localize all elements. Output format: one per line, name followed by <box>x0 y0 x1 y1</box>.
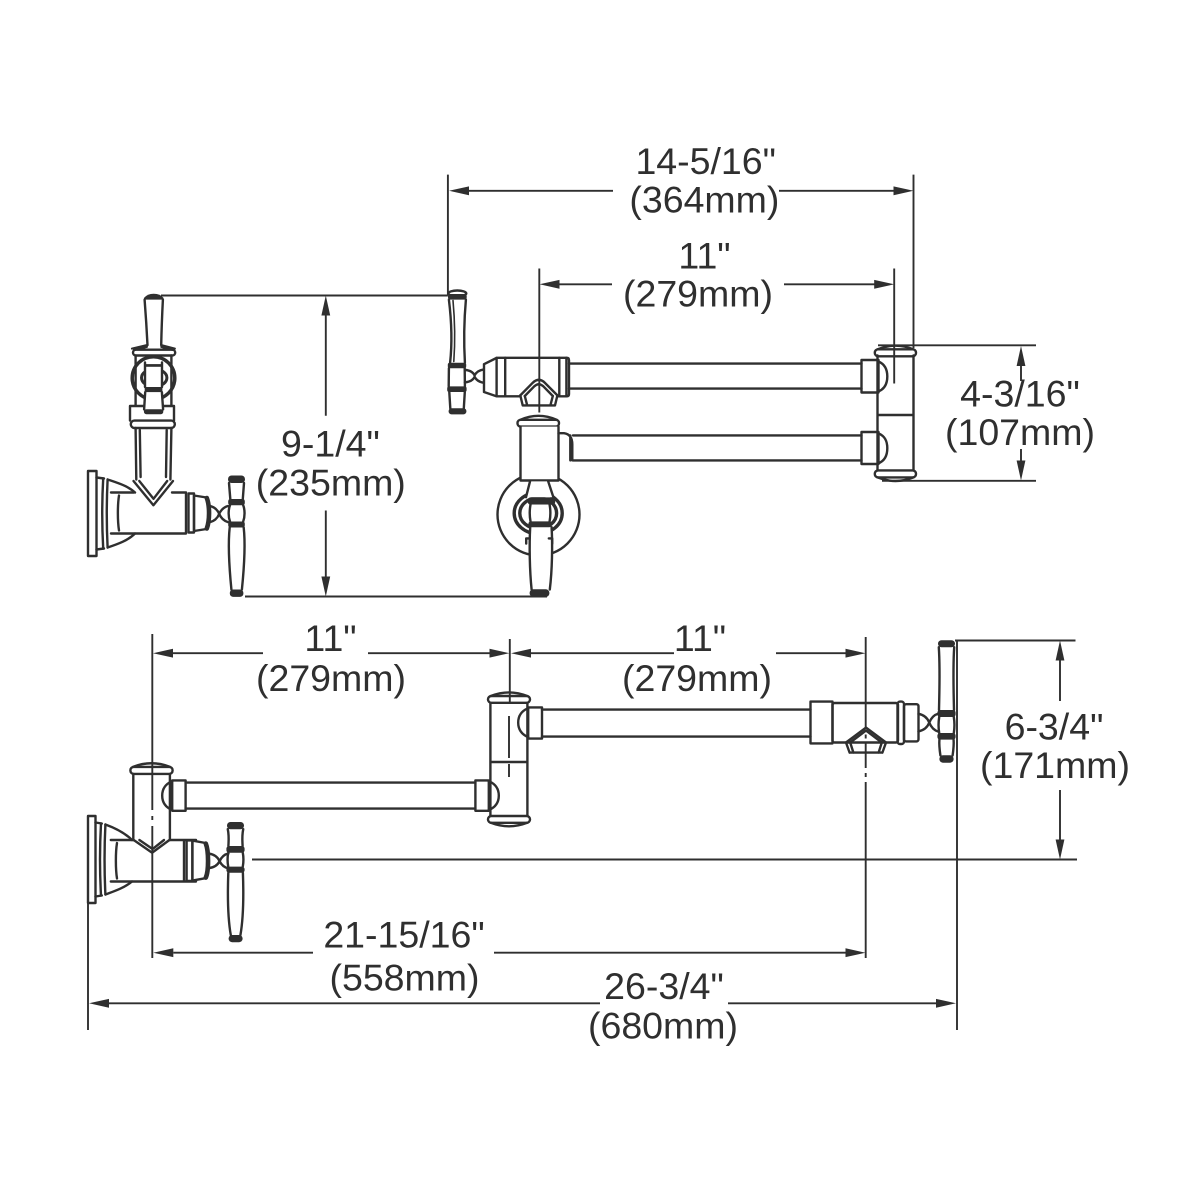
folded view swing joint bottom cap <box>875 470 916 481</box>
dim 4-3/16 extension lines <box>878 345 1036 481</box>
arrow 14-5/16 right <box>894 186 914 195</box>
arrow 14-5/16 left <box>449 186 469 195</box>
svg-text:(680mm): (680mm) <box>588 1005 738 1047</box>
svg-text:6-3/4": 6-3/4" <box>1005 706 1104 748</box>
side view body inner cup arc <box>118 496 119 531</box>
side view bonnet band <box>133 350 175 356</box>
svg-text:14-5/16": 14-5/16" <box>635 140 776 182</box>
side view valve body <box>111 493 186 534</box>
arrow 26-3/4 left <box>89 999 109 1008</box>
plan view handle neck <box>209 853 229 868</box>
side view riser body <box>136 428 172 480</box>
plan view body inner cup arc <box>116 843 117 879</box>
dim 9-1/4 line <box>325 315 327 577</box>
svg-text:21-15/16": 21-15/16" <box>323 914 484 956</box>
plan view first arm fitting at middle joint <box>475 780 498 810</box>
folded view spout column <box>521 427 559 481</box>
folded view lower arm end fitting <box>862 432 888 464</box>
arrow 21-15/16 left <box>153 948 173 957</box>
plan view riser joint cap <box>130 763 172 774</box>
dim 11 bottom-left line <box>173 652 490 654</box>
plan view riser joint body <box>133 774 170 840</box>
dim 11 top extension lines <box>539 269 894 413</box>
dim 26-3/4 left extension <box>87 903 89 1030</box>
side view front handle upper taper <box>229 483 244 499</box>
folded view lower arm elbow at column <box>559 433 573 460</box>
svg-text:4-3/16": 4-3/16" <box>960 373 1080 415</box>
plan view flange trumpet <box>96 823 133 897</box>
folded view handle neck trapezoid <box>526 481 553 497</box>
side view wall flange plate <box>88 471 97 556</box>
side view front handle dark ring 1 <box>228 499 245 505</box>
arrow 9-1/4 up <box>321 296 330 316</box>
side view riser cone junction <box>134 481 174 505</box>
folded view escutcheon circle <box>498 474 580 556</box>
side view bonnet shoulders <box>132 345 175 350</box>
plan view valve rings right <box>184 840 208 881</box>
folded view swing joint body <box>878 356 914 471</box>
plan view middle joint top cap <box>488 692 530 702</box>
arrow 11 top left <box>540 280 560 289</box>
side view neck to handle <box>210 506 229 523</box>
svg-text:11": 11" <box>678 234 730 276</box>
side view front handle: dark cap <box>228 476 245 484</box>
plan centerline middle joint <box>508 639 511 777</box>
svg-text:(558mm): (558mm) <box>329 957 479 999</box>
side view front handle blade <box>229 528 245 590</box>
arrow 11 bottom-left left <box>153 649 173 658</box>
side view wheel inner ring <box>142 369 167 387</box>
plan view riser cone junction <box>134 840 170 852</box>
arrow 4-3/16 down <box>1017 461 1026 481</box>
side view lever dark bottom cap <box>144 409 163 414</box>
svg-text:11": 11" <box>304 617 356 659</box>
svg-text:(235mm): (235mm) <box>256 462 406 504</box>
plan view second arm fitting at middle joint <box>518 707 542 738</box>
svg-text:26-3/4": 26-3/4" <box>604 965 724 1007</box>
side view flange trumpet <box>97 478 136 550</box>
dim 6-3/4 top extension <box>955 640 1076 642</box>
folded view gland ring torus <box>514 493 562 534</box>
svg-text:(279mm): (279mm) <box>622 657 772 699</box>
arrow 11 bottom-right left <box>511 649 531 658</box>
svg-text:(171mm): (171mm) <box>980 744 1130 786</box>
plan view wall flange plate <box>88 816 96 903</box>
folded view upright handle <box>447 291 467 415</box>
side view top lever blade <box>145 300 163 346</box>
svg-text:(364mm): (364mm) <box>629 178 779 220</box>
plan centerline left riser <box>151 634 153 958</box>
dim 26-3/4 right extension <box>956 641 958 1031</box>
folded view handle hub <box>530 505 551 522</box>
arrow 4-3/16 up <box>1017 346 1026 366</box>
folded view spout column cap <box>518 416 560 427</box>
arrow 11 bottom-left right <box>490 649 510 658</box>
plan view right handle <box>937 640 955 763</box>
plan view middle joint bottom cap <box>488 816 530 826</box>
svg-text:(107mm): (107mm) <box>945 411 1095 453</box>
folded view valve left cap <box>484 358 496 396</box>
side view ring <box>131 421 175 428</box>
dim 14-5/16 extension lines <box>448 175 914 348</box>
arrow 9-1/4 down <box>321 577 330 597</box>
side view body right rings <box>186 493 209 533</box>
arrow 26-3/4 right <box>936 999 956 1008</box>
side view lever dark band <box>145 387 163 392</box>
plan view spout body <box>833 703 899 743</box>
dim 6-3/4 line <box>1059 661 1061 840</box>
plan view spout rings <box>898 702 919 744</box>
folded view valve body rings <box>505 358 566 397</box>
side view valve wheel circle <box>132 357 175 400</box>
dimension texts <box>256 140 1130 1047</box>
folded view handle dark bottom cap <box>530 589 550 597</box>
dim 9-1/4 extension lines <box>161 296 547 597</box>
arrow 11 top right <box>874 280 894 289</box>
folded view handle dark band top <box>528 497 555 504</box>
plan view second arm pipe <box>542 710 811 737</box>
side view front handle hub <box>229 505 245 521</box>
dim 11 top line <box>559 283 875 285</box>
arrow 6-3/4 up <box>1056 641 1065 661</box>
folded view swing joint top cap <box>875 346 916 357</box>
folded view upper arm pipe <box>569 364 862 389</box>
dim 21-15/16 line <box>173 952 845 954</box>
plan wall reference line <box>252 859 1077 861</box>
dim 4-3/16 line <box>1020 366 1022 462</box>
plan view spout neck <box>919 714 939 732</box>
svg-text:(279mm): (279mm) <box>623 272 773 314</box>
side view stem through wheel <box>145 363 162 388</box>
arrow 6-3/4 down <box>1056 840 1065 860</box>
side view bonnet cylinder <box>136 356 172 406</box>
arrow 21-15/16 right <box>846 948 866 957</box>
side view top lever dark cap <box>144 294 164 300</box>
folded view wall valve body <box>497 358 569 397</box>
side view lever lower flare <box>144 392 163 409</box>
folded view lower arm pipe <box>573 435 862 460</box>
dim 26-3/4 line <box>109 1002 936 1004</box>
folded view outlet cone <box>520 380 557 406</box>
arrow 11 bottom-right right <box>846 649 866 658</box>
plan centerline spout <box>865 637 867 958</box>
side view front handle dark bottom cap <box>230 590 244 597</box>
folded view handle ears <box>526 538 552 543</box>
plan view first arm fitting at riser <box>162 780 185 810</box>
side view stem collar <box>130 406 174 421</box>
dim 11 bottom-right line <box>531 652 846 654</box>
svg-text:11": 11" <box>674 617 726 659</box>
plan view middle joint body <box>490 703 527 816</box>
folded view handle neck bowtie <box>465 369 484 382</box>
folded view handle blade <box>530 527 552 589</box>
plan view valve body <box>111 840 196 882</box>
arrowheads <box>89 186 1064 1007</box>
folded view handle dark band bottom <box>528 521 551 527</box>
plan view lower handle <box>226 822 244 942</box>
svg-text:(279mm): (279mm) <box>256 657 406 699</box>
plan view spout outlet cone <box>846 728 886 753</box>
plan view first arm pipe <box>186 783 476 809</box>
side view front handle dark ring 2 <box>228 522 245 528</box>
folded view upper arm end fitting <box>862 360 888 393</box>
plan view spout inlet fitting <box>811 702 833 744</box>
svg-text:9-1/4": 9-1/4" <box>281 423 380 465</box>
dim 14-5/16 line <box>469 190 895 192</box>
side view stem dark bar <box>145 364 162 367</box>
